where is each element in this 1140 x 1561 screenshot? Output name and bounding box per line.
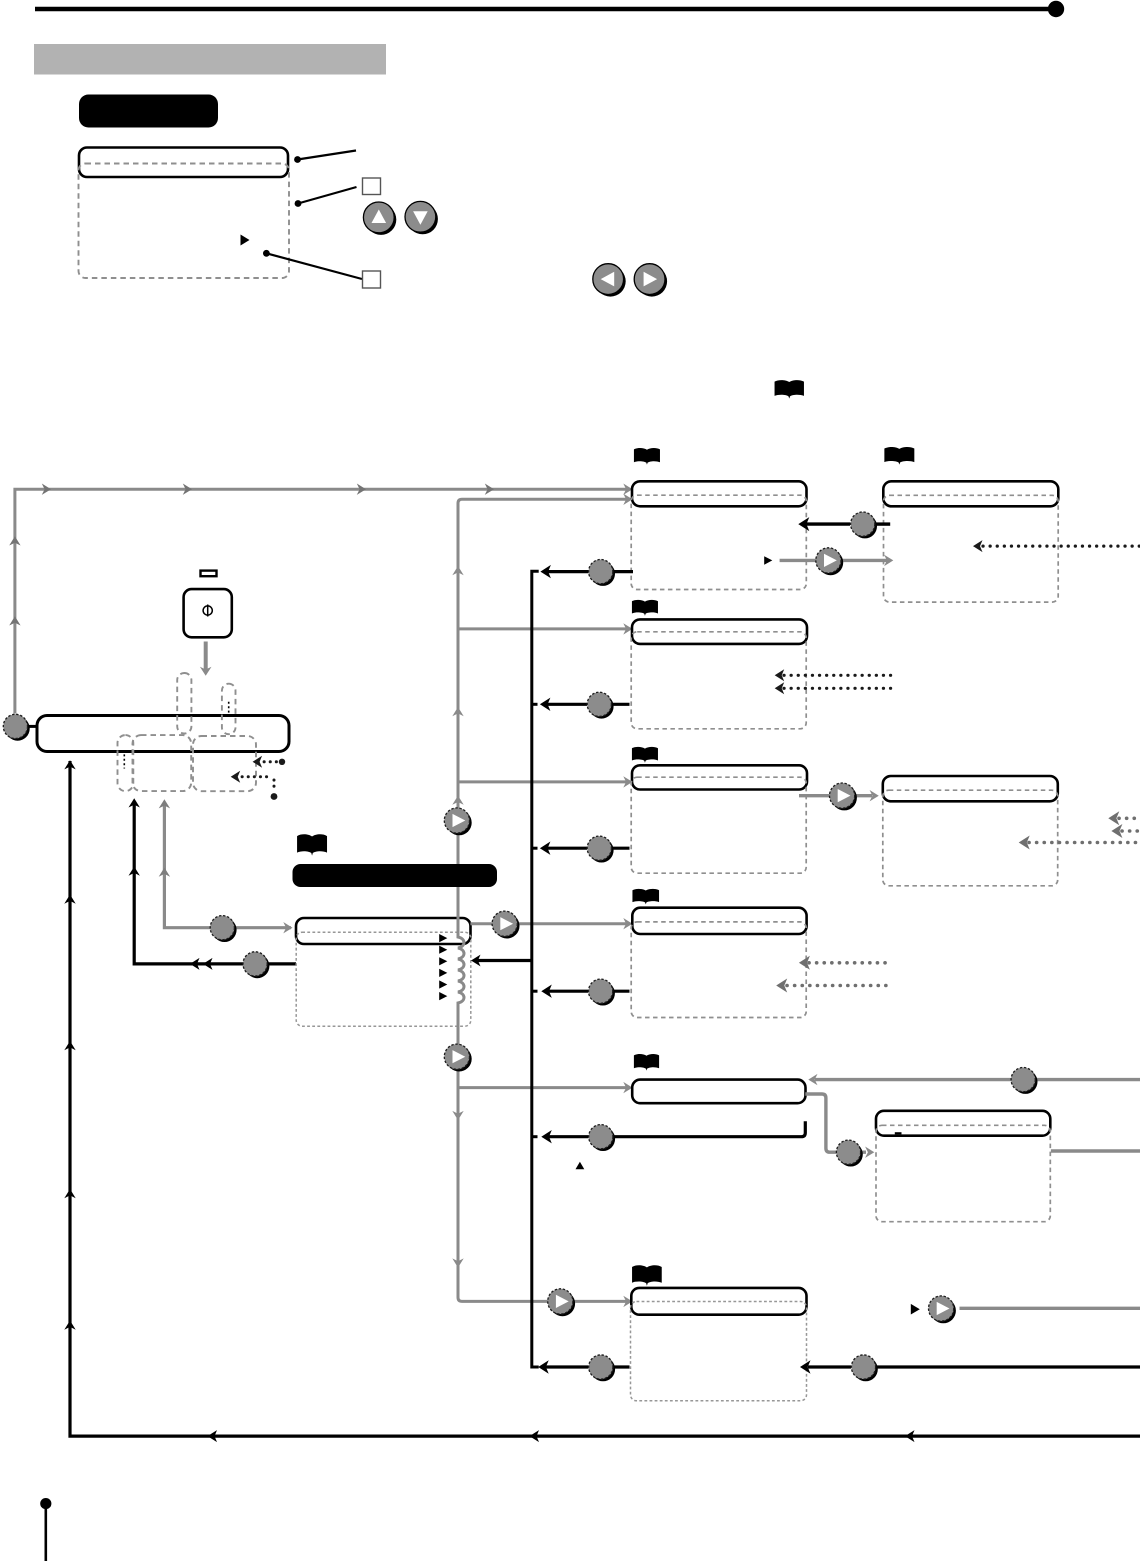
play circle on branch 4 [492,911,519,938]
menu 4 exit arrow [541,979,629,1005]
section title gray bar [34,44,386,75]
menu key black button [79,95,218,128]
menu 1 dashed body [631,495,806,589]
power button [184,589,232,637]
callout line 3 [263,250,362,279]
setup menu dashed body [296,932,471,1026]
black spine stubs [532,704,538,1136]
example cursor triangle [241,235,250,246]
submenu3 right line [1051,1149,1140,1152]
menu6 return from right [800,1355,1140,1381]
submenu 2 title bar [883,776,1058,801]
play circle on spine upper [444,808,471,835]
menu2 dotted arrow upper [775,669,891,681]
gray spine arrowheads [452,494,632,1308]
menu 4 title bar [632,908,806,934]
submenu 2 dashed body [883,790,1058,886]
callout square 1 [363,178,381,195]
submenu 1 book [884,447,914,465]
submenu 3 cursor mark [895,1132,902,1134]
menu 5 title bar [632,1080,805,1104]
menu6 onward link [911,1296,1140,1323]
callout line 2 [295,187,357,207]
submenu2 dotted arrow 2 [1111,824,1140,838]
power down arrow [200,642,212,676]
panel dashed box D [133,735,192,791]
gray path remote to menu box 1 [15,489,628,713]
submenu 1 dashed body [884,495,1059,602]
menu 5 book [634,1054,659,1071]
down button [405,201,438,234]
menu 5 exit arrow [541,1121,805,1151]
setup book icon [297,834,327,855]
gray up arrow into panel button [159,799,293,933]
gray branch to menu 3 [458,776,633,787]
menu5 long gray arrow [808,1068,1140,1094]
menu1 to submenu1 link [764,548,893,575]
menu 3 book [632,747,658,763]
black spine [532,571,539,1367]
black arrow spine to setup box [471,955,532,967]
remote menu button circle [3,714,38,740]
panel dashed capsule B [222,684,236,735]
menu 3 title bar [632,765,807,789]
submenu1 dotted arrow [973,540,1140,552]
reference book icon top [775,380,804,399]
panel dashed capsule C [118,735,134,791]
submenu2 dotted arrow 1 [1108,811,1140,825]
menu 2 book [632,600,658,616]
black exit line setup to panel [134,803,296,970]
power plug [201,571,217,577]
dotted elbow arrow to box E lower [231,771,278,800]
device front panel bar [37,716,289,752]
menu 6 book [632,1265,662,1286]
callout line 1 [294,151,356,163]
menu 3 dashed body [631,777,806,873]
up triangle marker [576,1162,585,1170]
submenu2 dotted arrow 3 [1019,836,1140,850]
menu 3 exit arrow [540,836,630,862]
setup menu title bar [296,918,471,944]
long return loop left [64,760,1140,1442]
gray branch to menu 2 [458,623,633,634]
example menu box dashed body [79,164,290,279]
callout square 2 [363,271,381,288]
menu 2 exit arrow [540,692,630,718]
gray circle on exit line [243,952,269,978]
setup menu item triangles [439,934,447,1000]
gray branch to menu 5 [458,1082,633,1093]
menu 6 title bar [631,1288,806,1315]
gray path arrowheads [9,484,632,626]
menu 4 book [632,889,659,904]
submenu 1 title bar [883,481,1058,506]
menu 2 dashed body [631,632,806,729]
left button [593,264,626,297]
play circle on spine lower [444,1044,471,1071]
menu 6 exit arrow [538,1355,629,1381]
setup menu black bar [293,864,498,887]
menu 2 title bar [632,619,807,644]
up button [363,202,396,235]
submenu 3 dashed body [876,1125,1050,1221]
panel dashed box E [193,736,256,791]
menu 1 book [634,448,660,465]
menu3 to submenu2 link [799,783,879,810]
submenu1 return arrow [798,512,890,538]
panel dashed capsule A [177,673,191,734]
example menu box title bar [79,148,288,178]
top rule [35,1,1064,17]
menu4 dotted arrow 1 [799,956,891,970]
menu5 to submenu3 link [805,1094,874,1167]
dotted arrow to box E [253,756,286,768]
menu 4 dashed body [631,922,806,1018]
gray branch setup to menu 4 [470,918,632,929]
menu4 dotted arrow 2 [776,979,891,993]
submenu 3 title bar [876,1111,1050,1136]
black up arrowheads panel line [129,798,140,875]
menu 1 exit arrow [540,560,633,586]
menu 1 title bar [632,481,807,506]
menu2 dotted arrow lower [775,682,891,694]
footer page marker [40,1498,51,1561]
right button [634,264,667,297]
gray circle on menu-entry line [210,916,236,942]
play circle on branch 6 [548,1289,575,1316]
gray spine [458,499,628,1301]
menu 6 dashed body [631,1302,807,1401]
